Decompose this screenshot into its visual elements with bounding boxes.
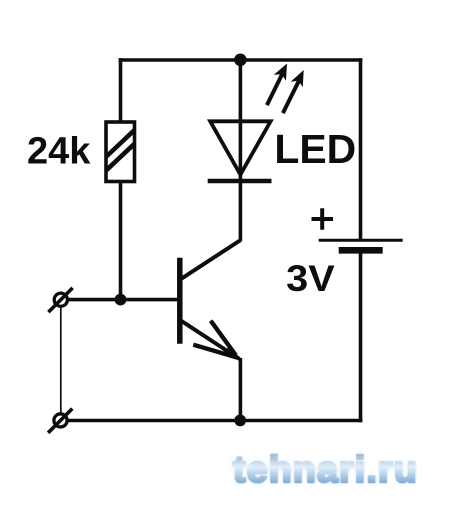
- svg-text:3V: 3V: [286, 258, 335, 299]
- wire top horizontal: [119, 58, 363, 62]
- terminal X2 circle: [54, 414, 67, 427]
- terminal X1 slash: [48, 288, 72, 312]
- resistor R1 body: [106, 122, 135, 182]
- transistor Q1 emitter arrow barb upper: [211, 321, 236, 356]
- LED D1 cathode bar: [208, 179, 272, 184]
- svg-text:tehnari.ru: tehnari.ru: [233, 448, 418, 490]
- node top junction dot: [234, 54, 247, 67]
- svg-text:24k: 24k: [27, 131, 91, 173]
- wire left vertical lower (resistor to base node): [119, 181, 123, 301]
- LED light arrow 1 shaft: [267, 74, 283, 106]
- transistor Q1 collector lead: [181, 240, 241, 279]
- transistor Q1 emitter arrow tip: [223, 347, 242, 361]
- wire left vertical upper (top rail to resistor): [119, 58, 123, 122]
- node A junction dot (base node): [115, 294, 127, 306]
- wire thin vertical between terminals: [60, 307, 62, 413]
- wire LED anode (top node down to LED): [239, 60, 243, 176]
- svg-text:LED: LED: [274, 126, 356, 172]
- wire right vertical lower (battery - to bottom rail): [359, 250, 363, 422]
- wire right vertical upper (top rail to battery +): [359, 58, 363, 240]
- node B junction dot (emitter node): [234, 415, 246, 427]
- battery BT1 positive plate: [319, 239, 403, 242]
- wire base horizontal: [67, 298, 178, 302]
- transistor Q1 emitter lead: [181, 321, 240, 359]
- resistor R1 hatch stripe lower: [106, 144, 134, 170]
- resistor R1 hatch stripe upper: [106, 130, 134, 156]
- terminal X1 circle: [54, 293, 67, 306]
- wire bottom horizontal: [67, 419, 362, 423]
- LED light arrow 2 shaft: [283, 80, 299, 113]
- LED light arrow 1 head: [274, 64, 287, 81]
- battery BT1 negative plate: [339, 247, 383, 254]
- wire emitter vertical to bottom rail: [239, 358, 243, 421]
- transistor Q1 base bar: [177, 258, 183, 344]
- wire LED cathode to collector: [239, 174, 243, 241]
- terminal X2 slash: [48, 409, 72, 433]
- plus sign: [312, 208, 334, 229]
- LED light arrow 2 head: [291, 70, 304, 87]
- LED D1 triangle: [210, 121, 270, 174]
- transistor Q1 emitter arrow barb lower: [193, 345, 237, 358]
